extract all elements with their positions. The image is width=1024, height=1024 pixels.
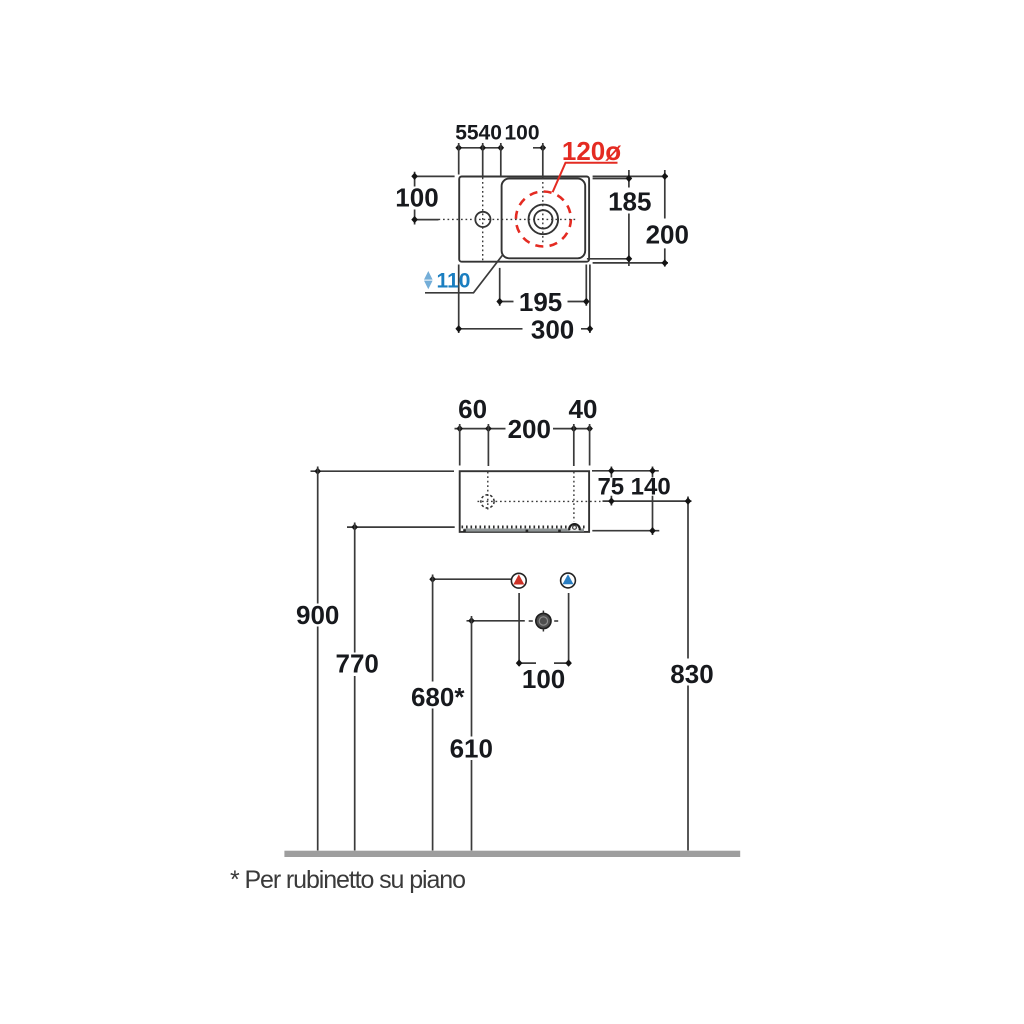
svg-text:195: 195 xyxy=(519,287,562,317)
extension below basin right xyxy=(589,265,591,334)
left 100 dimension line xyxy=(414,172,416,225)
overflow keyhole inner circle xyxy=(573,526,577,530)
610 extension line xyxy=(467,620,525,622)
drop line from 100 right tick xyxy=(542,143,544,177)
680 dimension line xyxy=(432,575,434,851)
100 tick left (front) xyxy=(516,659,523,666)
svg-text:55: 55 xyxy=(455,122,479,145)
185 tick bottom xyxy=(626,255,633,262)
75 tick top xyxy=(608,467,615,474)
PLAN-VIEW xyxy=(395,122,689,345)
extension below bowl left xyxy=(499,268,501,306)
svg-text:120ø: 120ø xyxy=(562,136,621,166)
770 tick xyxy=(351,523,358,530)
top dimension line (60/200/40) xyxy=(455,428,591,430)
100 dimension line (front) xyxy=(519,662,569,664)
waste pipe circle xyxy=(536,613,551,628)
dotted centerline horizontal (plan) xyxy=(439,218,579,220)
tap hole (plan) xyxy=(475,212,490,227)
140 tick bottom xyxy=(649,527,656,534)
drop line 60 left xyxy=(459,424,461,466)
770 extension line xyxy=(347,526,455,528)
tick 55/40 xyxy=(479,144,486,151)
dashed tap circle (front) xyxy=(481,495,494,508)
610 dimension line xyxy=(471,616,473,851)
waste crosshair bottom dash xyxy=(542,629,544,632)
waste crosshair top dash xyxy=(542,611,544,614)
drain outer circle xyxy=(529,205,559,235)
svg-text:770: 770 xyxy=(336,649,379,679)
bowl outline (plan) xyxy=(502,179,586,259)
svg-text:200: 200 xyxy=(508,414,551,444)
left 100 tick bottom xyxy=(411,216,418,223)
drop line from 55/40 tick xyxy=(482,143,484,177)
svg-text:* Per rubinetto su piano: * Per rubinetto su piano xyxy=(230,866,465,894)
waste crosshair right dash xyxy=(554,620,558,622)
140 tick top xyxy=(649,467,656,474)
mounting rail strip xyxy=(464,529,585,532)
dotted centerline horizontal (front) xyxy=(478,500,601,502)
200 tick top (plan) xyxy=(662,173,669,180)
svg-text:140: 140 xyxy=(631,473,671,500)
drop line from 40 right tick xyxy=(500,143,502,177)
tick 60 left xyxy=(456,425,463,432)
680 extension line xyxy=(433,578,514,580)
195 tick right xyxy=(583,298,590,305)
dotted overflow vertical (front) xyxy=(573,472,575,522)
tick 100 right xyxy=(540,144,547,151)
svg-text:100: 100 xyxy=(522,664,565,694)
overflow keyhole xyxy=(569,524,580,530)
hot water triangle xyxy=(513,574,524,584)
svg-text:100: 100 xyxy=(504,122,539,145)
ELEVATION-VIEW xyxy=(284,394,740,857)
svg-text:110: 110 xyxy=(437,270,471,293)
left 100 extension bottom xyxy=(415,219,439,221)
svg-text:680*: 680* xyxy=(411,682,465,712)
300 tick right xyxy=(587,325,594,332)
svg-text:185: 185 xyxy=(608,186,651,216)
svg-text:830: 830 xyxy=(670,659,713,689)
rail clip middle xyxy=(526,530,529,532)
900 extension line xyxy=(311,470,455,472)
svg-text:40: 40 xyxy=(479,122,502,145)
svg-text:300: 300 xyxy=(531,315,574,345)
rail dotted top line xyxy=(462,525,587,528)
drop line from 55 left tick xyxy=(458,143,460,175)
tick 40 right xyxy=(586,425,593,432)
waste crosshair left dash xyxy=(529,620,533,622)
rail clip right xyxy=(558,530,561,532)
extension right top (front) xyxy=(592,470,659,472)
extension below bowl right xyxy=(585,265,587,306)
left 100 extension top xyxy=(413,175,455,177)
195 dimension line xyxy=(500,301,587,303)
extension right middle (front) xyxy=(603,500,692,502)
830 tick xyxy=(685,497,692,504)
tick 60/200 xyxy=(485,425,492,432)
extension below basin left xyxy=(458,265,460,334)
100 extension right (front) xyxy=(568,593,570,666)
195 tick left xyxy=(496,298,503,305)
200 tick bottom (plan) xyxy=(662,259,669,266)
hot water symbol circle xyxy=(511,573,526,588)
cold water triangle xyxy=(563,574,574,584)
drop line 200/40 xyxy=(573,424,575,466)
dotted centerline vertical drain xyxy=(542,178,544,246)
basin outline (front) xyxy=(460,471,589,532)
140 dimension line xyxy=(652,467,654,536)
extension right bottom (front) xyxy=(592,530,659,532)
svg-text:610: 610 xyxy=(450,733,493,763)
drain inner circle xyxy=(534,210,552,228)
red dashed circle 120 dia xyxy=(516,192,571,247)
extension right bottom outer xyxy=(593,262,668,264)
drop line 60/200 xyxy=(487,424,489,466)
300 tick left xyxy=(455,325,462,332)
100 extension left (front) xyxy=(518,593,520,666)
300 dimension line xyxy=(459,328,590,330)
floor line xyxy=(284,851,740,857)
110 leader line xyxy=(425,255,503,293)
red leader line xyxy=(553,163,618,193)
svg-text:200: 200 xyxy=(646,220,689,250)
830 dimension line xyxy=(687,497,689,851)
svg-text:100: 100 xyxy=(395,183,438,213)
extension right top outer xyxy=(593,175,668,177)
top dimension line (55/40/100) xyxy=(459,147,543,149)
75 dimension line xyxy=(610,467,612,506)
rail clip left xyxy=(463,529,466,532)
185 tick top xyxy=(626,175,633,182)
svg-text:900: 900 xyxy=(296,600,339,630)
tick 200/40 xyxy=(571,425,578,432)
dotted tap vertical (front) xyxy=(487,472,489,512)
680 tick xyxy=(429,576,436,583)
185 dimension line xyxy=(628,170,630,266)
100 tick right (front) xyxy=(565,659,572,666)
75 tick bottom xyxy=(608,497,615,504)
svg-text:60: 60 xyxy=(458,394,487,424)
waste pipe inner detail xyxy=(539,617,547,625)
tick 55 left xyxy=(455,144,462,151)
900 tick xyxy=(314,468,321,475)
svg-text:75: 75 xyxy=(597,473,624,500)
tick 40 right xyxy=(498,144,505,151)
110 depth icon xyxy=(424,271,433,289)
left 100 tick top xyxy=(411,173,418,180)
basin outline (plan) xyxy=(459,177,589,262)
dotted centerline vertical tap hole xyxy=(482,178,484,261)
overflow keyhole backing xyxy=(568,522,581,531)
extension right bottom bowl xyxy=(587,258,632,260)
770 dimension line xyxy=(354,523,356,851)
200 dimension line (plan) xyxy=(664,170,666,267)
extension right top bowl xyxy=(593,178,632,180)
svg-text:40: 40 xyxy=(569,394,598,424)
drop line 40 right xyxy=(589,424,591,466)
610 tick xyxy=(468,617,475,624)
cold water symbol circle xyxy=(561,573,576,588)
900 dimension line xyxy=(317,467,319,851)
